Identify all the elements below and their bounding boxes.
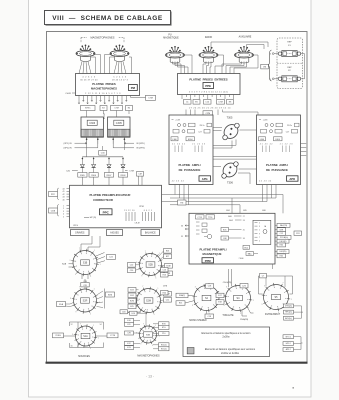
fuse panel dashed enclosure — [277, 38, 303, 89]
svg-text:E10: E10 — [127, 320, 130, 322]
svg-text:E86: E86 — [262, 210, 265, 212]
svg-text:PG307: PG307 — [104, 112, 106, 119]
svg-text:44: 44 — [63, 188, 65, 190]
svg-text:BAC: BAC — [248, 253, 253, 256]
svg-text:5: 5 — [90, 276, 91, 278]
PPM bottom stub — [272, 264, 274, 269]
svg-text:IN (XPD): IN (XPD) — [136, 143, 145, 145]
bus pin numbers row — [189, 108, 231, 110]
APG bottom pins — [175, 185, 189, 191]
svg-text:21 22 23: 21 22 23 — [280, 144, 293, 146]
svg-text:PPC: PPC — [51, 194, 56, 196]
svg-text:9: 9 — [140, 343, 141, 345]
connector label C30 — [102, 146, 104, 150]
wires APD to frame edge — [301, 144, 307, 156]
svg-text:C715: C715 — [197, 217, 202, 219]
S1B bottom stubs — [82, 274, 88, 283]
svg-text:12: 12 — [71, 324, 73, 326]
pin stubs below PM — [78, 96, 127, 105]
connector label CM small — [137, 172, 144, 177]
svg-text:AIGUES: AIGUES — [110, 231, 119, 234]
svg-text:(XP1) IN: (XP1) IN — [64, 143, 72, 145]
svg-text:1: 1 — [291, 299, 292, 301]
svg-text:C27: C27 — [286, 131, 289, 133]
svg-text:PPE: PPE — [205, 84, 211, 88]
S1B top wires to PPC — [81, 236, 100, 251]
vertical label PG307 — [104, 112, 106, 119]
PPC left pins group 1 — [56, 188, 69, 202]
svg-text:CTM: CTM — [114, 108, 119, 110]
fuse F2 repartiteur — [274, 67, 304, 82]
svg-text:9: 9 — [192, 305, 193, 307]
wires CM down to PPC top — [139, 176, 143, 185]
S2M left labels — [128, 288, 139, 309]
svg-text:C7M: C7M — [129, 170, 134, 172]
svg-text:T306: T306 — [227, 182, 233, 185]
svg-text:Elements et liaisons specifiqu: Elements et liaisons specifiques a la ve… — [202, 332, 252, 335]
legend text 2 — [205, 348, 256, 355]
svg-text:2x30w: 2x30w — [222, 336, 229, 339]
label IN XPD — [124, 142, 145, 145]
svg-text:CTM: CTM — [148, 98, 153, 100]
S2A bottom label C18 — [206, 311, 208, 314]
rotary switch sources S1A — [72, 323, 99, 349]
svg-text:APG(2s): APG(2s) — [285, 317, 292, 320]
svg-text:3: 3 — [259, 226, 260, 228]
svg-text:1: 1 — [100, 264, 101, 266]
svg-text:2: 2 — [259, 240, 260, 242]
svg-text:4 2 6 1 3: 4 2 6 1 3 — [82, 77, 95, 79]
S3B top labels — [120, 310, 146, 326]
svg-text:3: 3 — [264, 286, 265, 288]
svg-text:RADIO: RADIO — [205, 36, 212, 39]
tonalite bottom wires — [242, 308, 254, 317]
svg-text:7 E06: 7 E06 — [239, 258, 244, 260]
svg-text:C305: C305 — [116, 122, 123, 125]
legend box — [183, 327, 270, 357]
svg-text:5: 5 — [152, 345, 153, 347]
svg-text:FILTRE BRUIT: FILTRE BRUIT — [265, 314, 281, 316]
svg-text:TONALITE: TONALITE — [222, 314, 234, 317]
distribution wire to diodes — [82, 143, 124, 157]
tonalite left labels — [216, 293, 226, 304]
svg-text:PPCA(2s): PPCA(2s) — [280, 236, 288, 239]
connector label CPM — [203, 111, 213, 116]
connector label SYNG — [53, 333, 64, 338]
svg-text:CN-A(2N): CN-A(2N) — [240, 318, 249, 321]
svg-text:36: 36 — [181, 225, 183, 227]
svg-text:C12: C12 — [280, 233, 283, 235]
rotary switch tonalite S4 — [224, 284, 254, 316]
svg-text:CR-M: CR-M — [135, 223, 140, 225]
svg-text:35: 35 — [181, 236, 183, 238]
svg-text:5: 5 — [90, 348, 91, 350]
svg-text:E13: E13 — [127, 347, 130, 349]
svg-text:C1R: C1R — [296, 233, 300, 235]
svg-text:C28: C28 — [83, 285, 86, 287]
rotary switch S1B selector — [69, 248, 100, 278]
filtre wire frame — [259, 276, 293, 294]
svg-text:2 12 9 11 8 10 6 5 4 7 1 3: 2 12 9 11 8 10 6 5 4 7 1 3 — [85, 93, 121, 95]
svg-text:E84: E84 — [226, 210, 229, 212]
label FILTRE BRUIT — [265, 314, 281, 316]
svg-text:5: 5 — [63, 217, 64, 219]
diodes D305-D308 with labels — [78, 157, 128, 186]
svg-text:9: 9 — [141, 275, 142, 277]
svg-text:C30: C30 — [130, 270, 133, 272]
connector label PPG — [49, 192, 58, 197]
S2R left label S1A — [57, 302, 74, 307]
svg-text:41 40 42: 41 40 42 — [172, 144, 185, 146]
svg-text:T716: T716 — [208, 217, 212, 219]
rotary switch S2M — [133, 286, 164, 316]
svg-text:CPM: CPM — [205, 113, 210, 115]
svg-text:S2R: S2R — [83, 300, 88, 303]
svg-text:C306: C306 — [89, 122, 96, 125]
svg-text:SOURCES: SOURCES — [78, 355, 90, 358]
PPM internal label C08 — [221, 236, 245, 240]
svg-text:C2G: C2G — [242, 285, 246, 287]
wires sockets to platine PPE — [173, 55, 259, 74]
PPM internal sub connector box — [253, 220, 271, 244]
svg-text:CM: CM — [138, 174, 142, 176]
svg-text:C27: C27 — [198, 131, 201, 133]
svg-text:5 3 1 9 7 2 8 4 6 10 12 11 (24: 5 3 1 9 7 2 8 4 6 10 12 11 (24) — [189, 92, 228, 94]
svg-text:1: 1 — [98, 337, 99, 339]
svg-text:VIII — SCHEMA DE CABLAGE: VIII — SCHEMA DE CABLAGE — [52, 15, 163, 22]
label C20 — [66, 170, 78, 172]
S2M right labels — [161, 292, 172, 303]
svg-text:9: 9 — [224, 305, 225, 307]
svg-text:S1A: S1A — [59, 303, 64, 306]
svg-text:APD 2: APD 2 — [286, 348, 291, 351]
svg-text:1: 1 — [63, 205, 64, 207]
svg-text:E06: E06 — [228, 216, 231, 218]
svg-text:MAGNETOPHONES: MAGNETOPHONES — [91, 86, 117, 90]
connector label C2G — [240, 284, 248, 288]
svg-text:AUXILIAIRE: AUXILIAIRE — [239, 36, 252, 39]
svg-text:6: 6 — [270, 54, 271, 56]
wires socket A to platine PM — [79, 55, 101, 74]
svg-text:E13: E13 — [163, 274, 166, 276]
svg-text:5: 5 — [259, 222, 260, 224]
svg-text:APD: APD — [289, 177, 295, 181]
svg-text:3: 3 — [195, 287, 196, 289]
capacitor C306 — [81, 117, 103, 144]
connector label CDB — [49, 208, 58, 213]
svg-text:TM: TM — [180, 202, 183, 204]
svg-text:5: 5 — [240, 313, 241, 315]
svg-text:CY7B: CY7B — [110, 335, 116, 337]
platine prises magnetophones PM — [76, 74, 140, 96]
S3B right labels — [153, 322, 169, 351]
svg-text:E04: E04 — [229, 220, 232, 222]
svg-text:34: 34 — [243, 238, 245, 240]
svg-text:E16: E16 — [132, 313, 135, 315]
svg-text:L306: L306 — [260, 139, 264, 141]
svg-text:(XP2) IN: (XP2) IN — [64, 148, 72, 150]
svg-text:3: 3 — [63, 211, 64, 213]
PPM internal label E05 — [221, 228, 245, 232]
label SOURCES — [78, 355, 90, 358]
svg-text:1: 1 — [159, 336, 160, 338]
svg-text:E24: E24 — [130, 295, 133, 297]
label IN XPG — [113, 144, 145, 150]
svg-text:E23: E23 — [130, 289, 133, 291]
label MAGNETOPHONES with dashed bracket — [81, 35, 124, 43]
svg-text:4: 4 — [63, 214, 64, 216]
wires bus row to APG — [186, 110, 258, 116]
svg-text:E62: E62 — [280, 255, 283, 257]
svg-text:1: 1 — [94, 250, 95, 252]
svg-text:MTG 2: MTG 2 — [286, 336, 291, 338]
svg-text:2N 2x: 2N 2x — [200, 125, 205, 127]
svg-text:E304: E304 — [275, 139, 279, 141]
svg-text:L306: L306 — [172, 139, 176, 141]
PPM internal labels E06 E04 — [228, 216, 244, 222]
svg-text:7: 7 — [80, 323, 81, 325]
svg-text:2x20w et 2x40w: 2x20w et 2x40w — [221, 352, 239, 355]
connector label E21 far right — [294, 231, 302, 235]
svg-text:5 2 4 1 3: 5 2 4 1 3 — [113, 77, 126, 79]
wire to CTM — [131, 96, 146, 98]
label AUXILIAIRE — [239, 36, 252, 39]
svg-text:IN (XPG): IN (XPG) — [136, 148, 145, 150]
svg-text:E304: E304 — [188, 139, 192, 141]
PPM right connector labels — [275, 223, 291, 257]
svg-text:7: 7 — [282, 283, 283, 285]
connector label CY7B — [107, 333, 118, 338]
wires PM components down to caps — [87, 111, 129, 118]
rotary switch S2B — [136, 251, 165, 279]
connector label TM — [178, 200, 187, 205]
rotary switch S2R — [70, 287, 100, 316]
wire fuse outputs — [304, 54, 306, 79]
svg-text:21 22 23: 21 22 23 — [192, 144, 205, 146]
labels above PPM — [226, 210, 265, 212]
svg-text:CTM: CTM — [218, 102, 223, 104]
platine preamplificateur correcteur PPC — [70, 185, 162, 228]
S3B left labels — [125, 318, 141, 349]
platine ampli de puissance gauche APG — [169, 115, 213, 185]
svg-text:5: 5 — [90, 314, 91, 316]
svg-text:C08: C08 — [223, 238, 226, 240]
svg-text:40: 40 — [63, 200, 65, 202]
S2B left labels — [128, 263, 141, 273]
label MAGNETOPHONES bottom — [137, 354, 160, 357]
svg-text:E2M: E2M — [167, 265, 171, 267]
label PU MAGNETIQUE — [163, 34, 179, 39]
S2B right labels — [160, 264, 173, 276]
svg-text:REP: REP — [287, 42, 292, 44]
svg-text:7: 7 — [259, 237, 260, 239]
S1B right wires — [96, 253, 105, 264]
pot AIGUES — [107, 230, 123, 236]
svg-text:DAC(2N): DAC(2N) — [280, 224, 288, 227]
svg-text:MTG(2s): MTG(2s) — [285, 306, 292, 308]
svg-text:7: 7 — [79, 287, 80, 289]
svg-text:E2M: E2M — [130, 300, 134, 302]
svg-text:APG: APG — [202, 177, 208, 181]
svg-text:14: 14 — [100, 324, 102, 326]
svg-text:9: 9 — [75, 312, 76, 314]
svg-text:C20: C20 — [130, 264, 133, 266]
APD bottom pins — [263, 185, 277, 191]
S2M bottom labels — [126, 309, 146, 314]
platine ampli de puissance droite APD — [257, 115, 301, 185]
svg-text:1: 1 — [270, 79, 271, 81]
svg-text:S1B: S1B — [83, 262, 88, 265]
label TONALITE — [222, 314, 234, 317]
svg-text:7: 7 — [145, 251, 146, 253]
svg-text:HPD 2: HPD 2 — [286, 343, 291, 345]
svg-text:SYNC: SYNC — [85, 108, 91, 110]
svg-text:E25: E25 — [130, 306, 133, 308]
wires socket B to platine PM — [105, 55, 132, 74]
svg-text:1: 1 — [253, 300, 254, 302]
S2A top label C18 — [208, 283, 210, 286]
svg-text:PPM: PPM — [139, 206, 144, 208]
pin stubs below PPE — [182, 95, 234, 100]
svg-text:DE PUISSANCE: DE PUISSANCE — [179, 168, 201, 172]
rotary switch mono-stereo S2A — [192, 284, 222, 316]
wire S1B to S2R region — [81, 279, 89, 289]
DIN socket auxiliaire — [235, 46, 254, 63]
svg-text:E14(2): E14(2) — [161, 344, 167, 346]
svg-text:1: 1 — [157, 288, 158, 290]
svg-text:1: 1 — [259, 230, 260, 232]
rotary switch magnetophones S3B — [136, 323, 160, 347]
wires radio and auxiliaire to fuse panel — [211, 42, 268, 49]
svg-text:+C38: +C38 — [175, 119, 180, 121]
svg-text:27 24 25 26 21 23 20 19 15 14: 27 24 25 26 21 23 20 19 15 14 — [189, 108, 231, 110]
svg-text:E18: E18 — [218, 302, 221, 304]
svg-text:GRAVES: GRAVES — [75, 231, 85, 234]
svg-text:1: 1 — [93, 325, 94, 327]
svg-text:E15: E15 — [179, 303, 182, 305]
svg-text:C12: C12 — [166, 299, 169, 301]
fuse F1 repartiteur — [274, 42, 304, 57]
bracket CM to fuses — [268, 50, 274, 81]
rotary switch filtre S5 — [262, 283, 292, 315]
svg-text:+C38: +C38 — [263, 119, 268, 121]
connector labels under PPE — [184, 100, 234, 105]
svg-text:41: 41 — [63, 191, 65, 193]
title box VIII - SCHEMA DE CABLAGE — [45, 11, 172, 26]
svg-text:E26: E26 — [166, 250, 169, 252]
svg-text:13 12 10: 13 12 10 — [124, 210, 135, 212]
label RADIO — [205, 36, 212, 39]
svg-text:5: 5 — [154, 314, 155, 316]
svg-text:7: 7 — [142, 286, 143, 288]
speaker connector labels group 2 — [283, 335, 303, 352]
svg-text:S3B: S3B — [146, 335, 151, 337]
DIN socket magnetophone B — [110, 44, 129, 61]
svg-text:PPM: PPM — [205, 259, 212, 263]
PPM internal components left — [196, 222, 212, 239]
S2B top right labels — [158, 249, 172, 261]
svg-text:E02: E02 — [245, 247, 248, 249]
svg-text:C18: C18 — [208, 316, 211, 318]
svg-text:S3A(2): S3A(2) — [179, 294, 185, 297]
left connector labels column — [161, 268, 169, 295]
svg-text:42: 42 — [63, 194, 65, 196]
svg-text:30 26 37 27 40: 30 26 37 27 40 — [80, 79, 98, 81]
svg-text:REP: REP — [287, 67, 292, 69]
platine prises entrees PPE — [178, 74, 241, 95]
svg-text:DE B(R): DE B(R) — [280, 241, 287, 243]
svg-text:E15(2): E15(2) — [161, 348, 167, 350]
svg-text:16: 16 — [71, 346, 73, 348]
svg-text:3: 3 — [226, 287, 227, 289]
svg-text:42 43 44: 42 43 44 — [172, 181, 185, 183]
label CH.R — [65, 93, 75, 95]
svg-text:E85: E85 — [243, 210, 246, 212]
svg-text:CORRECTEUR: CORRECTEUR — [93, 198, 113, 202]
schematic frame — [46, 32, 308, 364]
svg-text:3: 3 — [69, 260, 70, 262]
svg-text:CTM: CTM — [163, 285, 168, 287]
capacitor C305 — [108, 117, 130, 144]
PPM bottom-right internal labels — [239, 245, 258, 259]
connector label C7 filtre — [260, 274, 267, 278]
svg-text:HPD(2s): HPD(2s) — [285, 312, 292, 314]
legend symbol square — [187, 348, 194, 354]
sources wires frame — [64, 322, 108, 348]
svg-text:PLATINE AMPLI: PLATINE AMPLI — [178, 163, 200, 167]
svg-text:PU: PU — [168, 34, 172, 36]
svg-text:CH.R: CH.R — [65, 93, 71, 95]
svg-text:PLATINE AMPLI: PLATINE AMPLI — [266, 163, 288, 167]
page number -13- — [146, 375, 154, 379]
svg-text:S2M: S2M — [146, 300, 151, 303]
svg-text:C18: C18 — [208, 286, 211, 288]
svg-text:MAGNETOPHONES: MAGNETOPHONES — [137, 354, 160, 357]
connector label CM — [261, 64, 269, 69]
svg-text:1: 1 — [163, 302, 164, 304]
svg-text:MAGNETIQUE: MAGNETIQUE — [203, 252, 222, 256]
svg-text:18 43 13 17 3: 18 43 13 17 3 — [112, 79, 129, 81]
pot GRAVES — [71, 230, 90, 236]
svg-text:E27: E27 — [166, 256, 169, 258]
svg-text:S1M: S1M — [108, 294, 113, 296]
svg-text:Elements et liaisons specifiqu: Elements et liaisons specifiques aux ver… — [205, 348, 256, 351]
label MONO-STEREO — [189, 320, 207, 322]
DIN socket magnetophone A — [76, 44, 95, 61]
svg-text:3: 3 — [70, 298, 71, 300]
label a HP — [84, 217, 96, 219]
svg-text:S1A: S1A — [83, 335, 88, 338]
label CN-A — [240, 318, 249, 321]
svg-text:C7: C7 — [262, 275, 264, 277]
svg-text:E7G: E7G — [162, 327, 166, 329]
svg-text:41 40 42: 41 40 42 — [260, 144, 273, 146]
svg-text:T305: T305 — [227, 116, 233, 119]
svg-text:43: 43 — [63, 197, 65, 199]
svg-text:E20: E20 — [163, 292, 166, 294]
PPC internal connector PPM pins — [124, 206, 154, 225]
transistor T305 — [219, 119, 243, 143]
svg-text:3: 3 — [72, 334, 73, 336]
label CN-G — [223, 282, 232, 284]
svg-text:- 13 -: - 13 - — [146, 375, 154, 379]
svg-text:1: 1 — [155, 325, 156, 327]
svg-text:E05: E05 — [223, 230, 226, 232]
svg-text:E17: E17 — [218, 295, 221, 297]
svg-text:S2B: S2B — [148, 264, 153, 267]
connector labels under PM — [81, 106, 133, 111]
svg-text:MAGNETOPHONES: MAGNETOPHONES — [90, 36, 114, 40]
